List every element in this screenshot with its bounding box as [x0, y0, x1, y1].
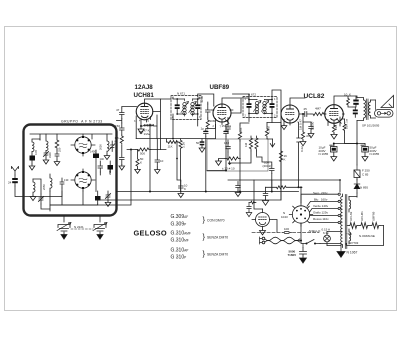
svg-text:SENZA DM70: SENZA DM70 [207, 253, 228, 257]
wire plate top [145, 99, 172, 103]
ground [199, 148, 205, 153]
pilot lamp [324, 232, 331, 246]
coil L2 [46, 134, 48, 151]
ground [308, 133, 314, 138]
wafer switch S1a [71, 134, 95, 156]
svg-text:SP/703: SP/703 [349, 241, 359, 245]
svg-text:220: 220 [334, 125, 338, 130]
junction [140, 125, 142, 127]
svg-text:25: 25 [304, 107, 308, 111]
svg-text:N 895: N 895 [360, 186, 368, 190]
ground rectifier [337, 244, 345, 258]
capacitor C26 tone [353, 96, 359, 107]
tuning gang section 1 [57, 216, 71, 235]
wire lamp taps [327, 232, 341, 246]
capacitor C21 150 [226, 123, 231, 134]
wire IF input vertical [139, 124, 151, 192]
svg-text:150: 150 [222, 124, 227, 128]
wire top bus inside gruppo [30, 134, 112, 140]
junction dots bus [149, 191, 151, 193]
coil L4 osc [50, 174, 52, 191]
svg-text:C 85: C 85 [362, 173, 369, 177]
svg-text:10: 10 [160, 159, 164, 163]
svg-text:± 20 # 10: ± 20 # 10 [222, 167, 235, 171]
wafer switch S1b [71, 169, 95, 191]
svg-text:N 2955: N 2955 [370, 152, 380, 156]
svg-text:6.3v: 6.3v [323, 231, 329, 235]
wire T1 to UBF89 [198, 94, 214, 106]
resistor R12 4M7 horizontal [311, 112, 326, 115]
detector assembly box [207, 139, 268, 171]
ground [119, 165, 125, 171]
junction [130, 149, 132, 151]
svg-text:Sero 220v: Sero 220v [313, 191, 328, 195]
coil L6 secondary [191, 99, 194, 116]
tube U3a UCL82 triode [281, 105, 299, 125]
resistor R8 coil style [249, 136, 252, 151]
capacitor C35 [247, 203, 251, 213]
wire screen [231, 99, 241, 113]
tube U1 UCH81 [136, 103, 157, 138]
capacitor C33 bus mid [236, 182, 241, 192]
capacitor C16 2200 [206, 104, 211, 118]
fuse F1 250mA [354, 165, 360, 180]
resistor R7 47K vertical [238, 125, 241, 141]
ground triode cathode [281, 125, 287, 130]
wire gang link dashed [71, 228, 93, 230]
svg-text:1/2w: 1/2w [144, 132, 151, 136]
wire grid to caps [117, 107, 137, 124]
ground DM70 [260, 230, 266, 235]
wire UBF89 bottom drops [206, 125, 228, 192]
junction [302, 113, 304, 115]
ground [155, 169, 161, 174]
tuning gang section 2 [93, 216, 107, 235]
svg-text:1.5M: 1.5M [267, 126, 271, 133]
junction [176, 158, 178, 160]
wire heater return [345, 243, 348, 246]
ground [104, 154, 110, 160]
IF transformer T1 N671 box [171, 96, 201, 120]
resistor R10 horizontal [219, 157, 241, 165]
wire antenna to gruppo [15, 186, 62, 197]
resistor R20 3.1K vertical [179, 139, 182, 192]
svg-text:4M7: 4M7 [315, 107, 321, 111]
capacitor C34 [263, 187, 268, 199]
speaker voice coil [375, 100, 394, 117]
svg-text:N 1955: N 1955 [319, 152, 329, 156]
svg-text:12AJ8: 12AJ8 [135, 84, 154, 91]
svg-text:150: 150 [224, 141, 229, 145]
svg-text:500: 500 [140, 152, 145, 156]
wire T1 sec bottom down [173, 118, 198, 139]
resistor R16 B horizontal [266, 186, 303, 189]
wire main bus AVC y191 [117, 191, 272, 193]
resistor R6 10M [206, 118, 209, 129]
antenna [12, 167, 19, 176]
svg-text:UBF89: UBF89 [372, 211, 376, 221]
svg-text:CON DM70: CON DM70 [207, 219, 225, 223]
capacitor C20 black [270, 100, 275, 114]
svg-text:10: 10 [344, 93, 348, 97]
svg-text:ANELLO: ANELLO [309, 229, 322, 233]
svg-text:15K 1w: 15K 1w [345, 118, 349, 129]
svg-text:K: K [184, 187, 186, 191]
wire det bottom [228, 133, 273, 192]
wire osc vertical to gang [50, 150, 131, 206]
wire T1 pins [173, 97, 199, 118]
ground [29, 164, 35, 170]
trimmer C5 [110, 141, 115, 152]
svg-text:11K: 11K [168, 144, 173, 148]
svg-text:UCH81: UCH81 [360, 211, 364, 221]
wire mains to selector [297, 223, 342, 243]
svg-text:10000: 10000 [311, 121, 315, 130]
wire bus y180 [228, 180, 340, 192]
wire 0.22 coupling down [296, 122, 300, 187]
ground [300, 141, 306, 146]
capacitor C13 10 [155, 139, 160, 167]
capacitor C12 150 [120, 123, 125, 135]
svg-text:50: 50 [196, 141, 200, 145]
svg-text:2050: 2050 [42, 184, 46, 190]
coil L9 [33, 179, 35, 195]
svg-text:N 2221: N 2221 [74, 225, 84, 229]
resistor R2 1.5M [120, 135, 123, 144]
resistor R14 cathode 220 [332, 125, 335, 134]
resistor R17 4.7 [249, 201, 255, 204]
wire bus drop right [206, 191, 299, 193]
voltage selector plug N1043 [289, 203, 312, 226]
svg-text:1043: 1043 [281, 215, 288, 219]
mains twisted cord [265, 237, 300, 244]
junction dots T2 [248, 99, 250, 101]
capacitor C31 100 [282, 232, 292, 234]
capacitor C38 [120, 145, 125, 164]
svg-text:100: 100 [284, 227, 289, 231]
wire triode plate [290, 98, 305, 105]
power transformer T4 [341, 194, 351, 249]
heater chain resistors [347, 223, 384, 229]
resistor R21 16K [279, 150, 282, 200]
capacitor C18 150 [224, 125, 229, 137]
svg-text:TRU: TRU [346, 232, 352, 236]
ground [362, 156, 368, 161]
ground [331, 156, 337, 161]
wire T2 top right [272, 90, 281, 150]
capacitor C1 black [30, 152, 36, 164]
svg-text:UBF89: UBF89 [210, 84, 230, 91]
resistor R3 47K cathode [141, 125, 157, 126]
capacitor C6 [98, 161, 103, 172]
coil L1 [32, 139, 40, 152]
wire screen right [153, 99, 161, 150]
trimmer C10 [105, 191, 110, 201]
capacitor C3 [55, 150, 59, 160]
ground [54, 160, 60, 166]
wire grid [208, 102, 214, 106]
switch SW1 [306, 240, 321, 245]
svg-text:K: K [284, 158, 286, 162]
capacitor C4 black 1400 [93, 150, 99, 161]
trimmer C36 [38, 194, 43, 204]
capacitor C27 tone across primary [353, 107, 358, 117]
ground [97, 235, 103, 240]
ground cathode [138, 126, 144, 134]
svg-text:130: 130 [64, 178, 69, 182]
ground pentode cathode [331, 133, 337, 139]
ground [43, 158, 49, 164]
transformer tap circles [338, 193, 340, 224]
wire heater bus y138 [136, 125, 215, 139]
capacitor C37 50 [200, 139, 205, 148]
svg-text:Rosso 110v: Rosso 110v [313, 217, 329, 221]
svg-text:Giallo 125v: Giallo 125v [313, 211, 329, 215]
speaker cone [381, 96, 394, 108]
junction [298, 186, 300, 188]
svg-text:140: 140 [100, 157, 105, 161]
svg-text:N 1067: N 1067 [347, 251, 358, 255]
wire grid node down [302, 114, 304, 131]
ground [262, 200, 268, 206]
capacitor C9 2050 [95, 191, 101, 204]
svg-text:N.ORMLNE: N.ORMLNE [359, 234, 375, 238]
capacitor C32 10K bus [179, 181, 184, 192]
svg-text:UCL82: UCL82 [349, 211, 353, 221]
svg-text:47: 47 [116, 108, 120, 112]
svg-text:GELOSO: GELOSO [134, 229, 167, 238]
wire block right edge to bus [116, 191, 118, 193]
junction [300, 240, 302, 242]
potentiometer P1 10K [270, 165, 275, 174]
svg-text:2050: 2050 [99, 144, 103, 150]
wire HT secondary [349, 196, 357, 199]
capacitor C28 electrolytic 10uF [330, 144, 337, 157]
mains plug [260, 237, 265, 244]
resistor R18 15K [343, 119, 346, 132]
wire screen to B+ [342, 118, 344, 120]
ground mains [300, 258, 307, 263]
ground [30, 195, 36, 200]
svg-text:7160V: 7160V [288, 253, 297, 257]
tube V4 DM70 [252, 209, 273, 230]
ground [235, 191, 241, 197]
wire 50K bottom [138, 150, 158, 169]
svg-text:UCL82: UCL82 [304, 93, 325, 100]
wire osc grid run [127, 149, 166, 151]
wire DM70 connections [254, 180, 277, 233]
wire T2 pins [233, 94, 273, 123]
capacitor C24 10000 [309, 122, 314, 133]
capacitor C17 1n [204, 129, 209, 137]
wire pentode grid [325, 113, 327, 115]
capacitor C11 47 [120, 108, 125, 119]
wire down from det box [207, 171, 272, 192]
wire osc bottom [50, 188, 98, 211]
wire T1 internal top [177, 99, 198, 114]
ground c32 [178, 192, 184, 198]
svg-text:K: K [349, 93, 351, 97]
capacitor C8 [60, 178, 64, 188]
wire selector taps [301, 194, 338, 222]
svg-text:UCH81: UCH81 [134, 92, 155, 99]
resistor R15 boost 10K [347, 96, 353, 107]
svg-text:0.22: 0.22 [300, 146, 304, 152]
coil L3 [107, 134, 109, 154]
wire rc join [303, 121, 311, 123]
wire secondary to voice coil [371, 100, 376, 118]
capacitor antenna coupling [12, 175, 18, 186]
ground [135, 168, 141, 173]
svg-text:N 671: N 671 [177, 92, 185, 96]
ground [105, 201, 111, 206]
svg-text:0.05: 0.05 [34, 149, 38, 155]
wire diode to transformer [356, 193, 358, 197]
wire screen resistor [345, 132, 358, 144]
svg-text:2050: 2050 [108, 169, 112, 175]
capacitor C7 black 2050 [108, 161, 114, 173]
tube U3b UCL82 pentode [324, 105, 345, 127]
svg-text:470: 470 [306, 134, 311, 138]
svg-text:Verde 140v: Verde 140v [313, 204, 329, 208]
svg-text:3.1K: 3.1K [182, 142, 186, 148]
capacitor C30 line 5000 [300, 244, 307, 259]
ground detector [216, 160, 222, 165]
svg-text:(2041): (2041) [263, 164, 272, 168]
svg-text:GRUPPO A F N 2733: GRUPPO A F N 2733 [61, 120, 103, 124]
wire main bus B y200 [96, 122, 281, 200]
dial cord anello dash line [252, 231, 319, 233]
capacitor C29 electrolytic 50uF [361, 144, 368, 157]
resistor R19 11K horizontal [166, 139, 179, 144]
svg-text:3300: 3300 [48, 152, 52, 158]
svg-text:2200: 2200 [200, 95, 204, 102]
tube U2 UBF89 [211, 104, 233, 125]
svg-text:10M: 10M [210, 119, 216, 123]
capacitor C23 25 [299, 112, 311, 117]
svg-text:K: K [140, 161, 142, 165]
wire block lower left [33, 179, 50, 209]
wire pentode plate up [334, 96, 357, 105]
svg-text:SENZA DM70: SENZA DM70 [207, 236, 228, 240]
ground [246, 212, 252, 217]
svg-text:1M 0.47: 1M 0.47 [299, 119, 303, 130]
coil L8 secondary [263, 100, 266, 114]
wire plate to T2 [222, 98, 249, 104]
svg-text:1400: 1400 [90, 150, 96, 154]
trimmer C2 [43, 151, 48, 158]
capacitor C14 [175, 99, 180, 114]
svg-text:G 310P: G 310P [171, 255, 187, 261]
svg-text:24: 24 [8, 181, 12, 185]
svg-text:150: 150 [115, 124, 120, 128]
svg-text:N 672: N 672 [248, 93, 256, 97]
wire c32 [177, 142, 181, 192]
arrow AVC down [270, 139, 274, 147]
capacitor C15 [195, 99, 200, 114]
junction [300, 186, 302, 188]
capacitor C22 [226, 143, 231, 152]
diode D1 N895 [354, 179, 360, 193]
svg-text:47K: 47K [239, 128, 243, 133]
IF transformer T2 N672 box [243, 97, 277, 118]
resistor R4 500 horizontal [136, 148, 151, 151]
resistor R9 [255, 136, 258, 151]
svg-text:G.309P: G.309P [171, 222, 187, 228]
coil L5 primary [183, 99, 186, 116]
coil L7 primary [255, 100, 258, 114]
wire volume down [257, 157, 272, 192]
wire B plus rail [334, 121, 365, 166]
wire r17 [254, 202, 256, 204]
ground [61, 235, 67, 240]
resistor R5 50K vertical [136, 150, 139, 169]
svg-text:250: 250 [58, 147, 62, 152]
wire inside verticals [96, 162, 110, 192]
wire T2 internal [249, 100, 272, 114]
svg-text:SP 101/2695: SP 101/2695 [362, 124, 380, 128]
wire avc left [226, 121, 281, 125]
output transformer T3 [357, 98, 371, 121]
resistor R1 vertical [55, 134, 59, 150]
wire resistor to selector [300, 187, 302, 203]
gruppo AF shield box [24, 125, 117, 216]
resistor R13 470 [301, 131, 304, 141]
resistor R11 1.5M AVC [265, 123, 268, 139]
junction dots T1 [176, 98, 178, 100]
arrow T2 tuning [254, 101, 269, 112]
arrow T1 tuning [181, 102, 196, 113]
svg-text:Blu 160v: Blu 160v [314, 197, 328, 201]
heater box outline [347, 226, 384, 246]
capacitor C19 black [247, 100, 252, 114]
svg-text:1M: 1M [244, 142, 248, 147]
junction [356, 143, 358, 145]
svg-text:1µ: 1µ [201, 127, 205, 131]
